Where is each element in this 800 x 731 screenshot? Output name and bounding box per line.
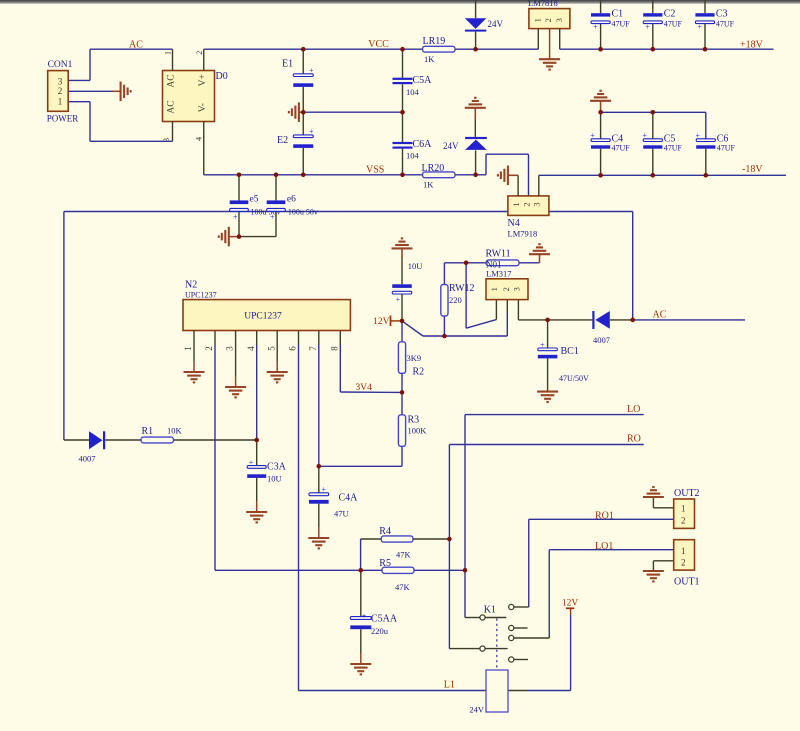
wire e5 e6 bottoms to ground (239, 211, 276, 236)
svg-text:+: + (322, 485, 327, 494)
svg-text:1: 1 (532, 18, 542, 22)
diode 4007 at R1 (79, 431, 106, 463)
wire K1 throw stubs (514, 628, 528, 660)
svg-text:LO1: LO1 (595, 541, 613, 552)
svg-text:C1: C1 (612, 8, 624, 19)
svg-text:CON1: CON1 (48, 60, 73, 70)
svg-text:C5AA: C5AA (371, 613, 398, 624)
diode 4007 on AC line (592, 311, 610, 345)
svg-text:N2: N2 (185, 280, 197, 291)
svg-text:47UF: 47UF (612, 19, 631, 28)
svg-text:2: 2 (204, 346, 214, 351)
junction at 600.6,175.3 (598, 173, 603, 178)
junction at 402.5,49.2 (400, 47, 405, 52)
svg-text:24V: 24V (469, 704, 485, 714)
svg-text:+18V: +18V (740, 40, 764, 51)
ground at E1 E2 midpoint (289, 102, 303, 122)
resistor R5 (379, 558, 414, 592)
wire LO1 net (514, 550, 674, 638)
ic N2 UPC1237 (183, 280, 350, 331)
svg-text:K1: K1 (484, 604, 496, 615)
capacitor E1 (282, 49, 314, 112)
wire relay right to 12V (508, 615, 571, 691)
svg-text:+: + (643, 131, 648, 140)
wire AC output line (518, 319, 745, 321)
svg-text:+: + (590, 131, 595, 140)
wire +18V rail (560, 48, 774, 50)
junction at 360.8,570.3 (359, 568, 364, 573)
regulator N4 LM7918 (508, 196, 549, 239)
svg-text:5: 5 (266, 346, 276, 351)
svg-text:R2: R2 (413, 366, 425, 377)
svg-text:100u 50v: 100u 50v (288, 207, 318, 216)
relay coil L1 (469, 670, 508, 714)
junction at 475.6,49.2 (473, 47, 478, 52)
junction at 449.4,539 (447, 537, 452, 542)
junction at 402,392.4 (400, 390, 405, 395)
wire R3 column (319, 392, 402, 466)
svg-text:BC1: BC1 (561, 346, 579, 357)
connector CON1 (47, 60, 79, 123)
svg-text:LR20: LR20 (422, 163, 445, 174)
capacitor C4 (590, 112, 630, 175)
wire K1 pole arms (485, 618, 508, 649)
resistor R1 (141, 425, 183, 443)
ground right of RW11 (529, 244, 550, 263)
junction at 600.6,49.2 (598, 47, 603, 52)
svg-text:R1: R1 (142, 426, 154, 437)
svg-text:R4: R4 (379, 526, 391, 537)
svg-text:+: + (362, 611, 367, 620)
svg-text:N4: N4 (508, 218, 520, 229)
junction at 466.1,262.8 (464, 261, 469, 266)
resistor LR19 (423, 36, 456, 64)
junction at 705,49.2 (703, 47, 708, 52)
svg-text:AC: AC (167, 100, 177, 113)
LM7818 pin3 lead (559, 29, 561, 50)
bridge pin 3 (161, 122, 173, 143)
svg-text:47UF: 47UF (664, 144, 683, 153)
svg-text:1: 1 (511, 202, 521, 206)
svg-text:220: 220 (449, 295, 462, 305)
junction at 465,570.3 (463, 568, 468, 573)
ground above lower 24V diode (465, 98, 486, 137)
svg-text:+: + (697, 23, 702, 32)
svg-text:R5: R5 (379, 558, 391, 569)
junction at 402.5,112.2 (400, 110, 405, 115)
UPC1237 pin3 to ground (225, 331, 246, 398)
N4 pin3 lead (538, 175, 540, 196)
wire adj row to LM317 pin2 (423, 299, 507, 336)
svg-text:+: + (233, 213, 238, 222)
svg-text:E1: E1 (282, 58, 293, 69)
junction at 303.25,112.2 (301, 110, 306, 115)
ground below C3A (246, 511, 267, 513)
svg-text:47K: 47K (396, 549, 412, 559)
svg-text:LR19: LR19 (423, 36, 446, 47)
svg-text:3: 3 (58, 77, 63, 87)
svg-text:LM7918: LM7918 (508, 229, 538, 239)
capacitor C4A (309, 466, 358, 537)
ground at CON1 pin2 (113, 90, 121, 92)
svg-text:C3: C3 (716, 8, 728, 19)
LM7818 pin2 to ground (539, 29, 560, 70)
svg-text:UPC1237: UPC1237 (185, 291, 217, 300)
capacitor C3 (695, 0, 734, 49)
svg-text:E2: E2 (277, 135, 288, 146)
svg-text:3: 3 (161, 138, 171, 142)
svg-text:47UF: 47UF (664, 19, 683, 28)
ground below OUT1 (643, 570, 664, 582)
wire RW11 row (444, 262, 539, 264)
capacitor 10U (392, 261, 422, 321)
wire R1 row (64, 439, 257, 441)
svg-text:1: 1 (183, 346, 193, 351)
bridge pin 2 (194, 49, 204, 70)
svg-text:10U: 10U (267, 473, 282, 483)
wire pin8 3V4 row (340, 331, 402, 393)
svg-text:-18V: -18V (742, 164, 763, 175)
junction at 402.5,174.8 (400, 173, 405, 178)
regulator N01 LM317 (486, 279, 528, 300)
svg-text:LO: LO (627, 404, 640, 415)
svg-text:1: 1 (162, 51, 172, 55)
capacitor E2 (277, 112, 314, 175)
wire RO net (449, 445, 643, 649)
svg-text:3V4: 3V4 (356, 383, 373, 393)
wire R2 column (401, 321, 403, 393)
K1 contact pole upper (480, 615, 485, 620)
svg-text:47UF: 47UF (612, 144, 631, 153)
svg-text:2: 2 (522, 202, 532, 206)
junction at 652.8,49.2 (651, 47, 656, 52)
svg-text:VCC: VCC (368, 39, 389, 50)
bridge pin 4 (193, 122, 203, 175)
svg-text:AC: AC (129, 40, 143, 51)
wire -18V rail (539, 174, 786, 176)
junction at 402,320.9 (400, 319, 405, 324)
svg-text:RO: RO (627, 434, 641, 445)
svg-text:4007: 4007 (593, 335, 610, 345)
svg-text:LM317: LM317 (486, 269, 512, 279)
svg-text:3: 3 (532, 202, 542, 206)
capacitor C1 (591, 0, 630, 49)
capacitor C2 (643, 0, 682, 49)
svg-text:3: 3 (511, 287, 521, 291)
svg-text:1K: 1K (423, 179, 434, 189)
svg-text:2: 2 (194, 51, 204, 55)
svg-text:e5: e5 (250, 195, 259, 205)
capacitor C6A (393, 112, 433, 175)
wire RO1 net (514, 519, 674, 607)
bridge pin 1 (162, 49, 172, 70)
junction at 256.7,440 (254, 438, 259, 443)
junction at 705.8,175.3 (704, 173, 709, 178)
wire OUT2 pin1 to ground (653, 498, 673, 508)
capacitor C5A (393, 49, 433, 112)
wire E1 E2 midpoint rail (303, 111, 402, 113)
wire long net from AC line to R1 line (64, 212, 633, 441)
junction at 318.8,466.3 (317, 464, 322, 469)
svg-text:e6: e6 (287, 195, 296, 205)
LM7818 pin1 lead (537, 29, 539, 50)
wire OUT1 pin2 to ground (653, 561, 673, 571)
wire LO net (465, 415, 644, 618)
svg-text:12V: 12V (373, 317, 390, 327)
svg-text:8: 8 (329, 346, 339, 351)
capacitor e5 (230, 175, 281, 222)
ground above 10U cap (392, 238, 413, 284)
K1 contact throw RO1 (509, 604, 514, 609)
svg-text:4: 4 (193, 136, 203, 141)
svg-text:2: 2 (681, 515, 686, 525)
svg-text:+: + (309, 66, 314, 75)
resistor R3 (398, 414, 427, 446)
connector OUT1 (674, 540, 700, 588)
capacitor C6 (696, 131, 736, 175)
wire C4 C5 C6 top rail (601, 112, 706, 139)
svg-text:24V: 24V (488, 19, 504, 29)
regulator LM7818 (528, 0, 570, 29)
wire UPC pin4 column (256, 331, 258, 466)
N4 pin1 to ground (498, 166, 518, 196)
potentiometer RW11 (486, 248, 520, 278)
svg-text:104: 104 (406, 87, 420, 97)
svg-text:C4A: C4A (339, 492, 359, 503)
K1 contact throw 2 (509, 625, 514, 630)
svg-text:2: 2 (58, 87, 63, 97)
svg-text:47UF: 47UF (716, 19, 735, 28)
junction at 600.6,112.3 (598, 110, 603, 115)
resistor R4 (379, 526, 413, 559)
svg-text:C3A: C3A (267, 461, 287, 472)
junction at 475.6,174.8 (473, 173, 478, 178)
svg-text:+: + (249, 458, 254, 467)
svg-text:C5A: C5A (413, 75, 433, 86)
svg-text:12V: 12V (562, 598, 579, 608)
svg-text:OUT2: OUT2 (674, 488, 700, 499)
svg-text:+: + (396, 295, 401, 304)
svg-text:3: 3 (554, 18, 564, 22)
capacitor C5AA (350, 570, 398, 663)
ground below C4A (308, 537, 329, 539)
svg-text:47K: 47K (395, 582, 411, 592)
svg-text:POWER: POWER (47, 113, 79, 123)
svg-text:+: + (696, 131, 701, 140)
svg-text:VSS: VSS (366, 164, 384, 175)
svg-text:D0: D0 (216, 71, 228, 82)
svg-text:+: + (645, 23, 650, 32)
svg-text:220u: 220u (371, 626, 389, 636)
junction at 303.25,49.2 (301, 47, 306, 52)
svg-text:47U/50V: 47U/50V (559, 374, 589, 383)
wire VCC rail (204, 48, 539, 50)
capacitor e6 (267, 175, 318, 222)
K1 actuator dotted line (496, 619, 498, 670)
wire AC net from CON1 to bridge pin 1 (68, 49, 172, 80)
capacitor C3A (247, 458, 286, 512)
svg-text:V+: V+ (198, 74, 208, 86)
svg-text:AC: AC (653, 309, 667, 320)
junction at 444.4,336 (442, 334, 447, 339)
svg-text:2: 2 (501, 287, 511, 291)
svg-text:1K: 1K (424, 54, 435, 64)
UPC1237 pin5 to ground (267, 331, 288, 383)
ground above C4 rail (590, 91, 611, 113)
junction at 239,174.8 (237, 173, 242, 178)
ground below BC1 (537, 391, 558, 393)
svg-text:100K: 100K (408, 425, 428, 435)
svg-text:R3: R3 (408, 414, 420, 425)
svg-text:RW11: RW11 (486, 248, 511, 259)
wire CON1 pin2 to ground (68, 90, 112, 92)
wire LM317 pin3 lead (517, 299, 519, 320)
zener diode 24V lower (443, 137, 487, 175)
svg-text:1: 1 (58, 97, 63, 107)
junction at 652.8,175.3 (651, 173, 656, 178)
K1 contact pole lower (480, 646, 485, 651)
svg-text:1: 1 (489, 287, 499, 291)
wire RW12 top lead (443, 263, 445, 285)
zener diode 24V upper (465, 0, 504, 49)
svg-text:104: 104 (406, 151, 420, 161)
resistor R2 (398, 342, 424, 378)
wire UPC pin6 column (299, 331, 487, 691)
K1 contact throw LO1 (509, 635, 514, 640)
svg-text:C2: C2 (664, 8, 676, 19)
svg-text:4: 4 (246, 346, 256, 351)
svg-text:1: 1 (681, 546, 686, 556)
junction at 652.8,112.3 (651, 110, 656, 115)
svg-text:3: 3 (225, 346, 235, 351)
wire VSS rail (204, 154, 529, 196)
svg-text:47UF: 47UF (717, 144, 736, 153)
junction at 547.6,319.9 (545, 318, 550, 323)
ground below C5AA (350, 663, 371, 665)
svg-text:2: 2 (681, 557, 686, 567)
capacitor BC1 (538, 320, 589, 392)
svg-text:V-: V- (198, 103, 208, 112)
junction at 303.25,174.8 (301, 173, 306, 178)
wire UPC pin2 column (215, 331, 465, 571)
junction at 276,174.8 (274, 173, 279, 178)
svg-text:2: 2 (543, 18, 553, 22)
wire LM317 pin1 lead (495, 299, 497, 320)
wire LM317 pin1 diagonal (466, 320, 496, 329)
svg-text:+: + (270, 213, 275, 222)
svg-text:4007: 4007 (79, 453, 96, 463)
svg-text:47U: 47U (334, 509, 349, 519)
svg-text:UPC1237: UPC1237 (244, 312, 282, 322)
potentiometer RW12 (441, 283, 475, 316)
svg-text:24V: 24V (443, 141, 459, 151)
svg-text:10U: 10U (408, 261, 423, 271)
power 12V left (373, 316, 402, 327)
resistor LR20 (422, 163, 456, 190)
svg-text:OUT1: OUT1 (674, 577, 700, 588)
wire R4 row (361, 539, 450, 570)
UPC1237 pin1 to ground (184, 331, 205, 383)
svg-text:+: + (309, 127, 314, 136)
svg-text:RW12: RW12 (449, 283, 475, 294)
svg-text:C6A: C6A (413, 139, 433, 150)
junction at 632.7,319.9 (630, 318, 635, 323)
svg-text:10K: 10K (167, 425, 183, 435)
power 12V right (562, 598, 579, 615)
svg-text:1: 1 (681, 503, 686, 513)
svg-text:7: 7 (308, 346, 318, 351)
ground at e5 e6 (219, 227, 239, 247)
wire UPC pin7 column (318, 331, 320, 467)
connector OUT2 (674, 488, 700, 529)
K1 contact throw 4 (509, 657, 514, 662)
svg-text:6: 6 (288, 346, 298, 351)
wire CON1 pin1 to bridge pin 3 (68, 102, 172, 142)
svg-text:LM7818: LM7818 (528, 0, 558, 8)
ground above OUT2 (643, 487, 664, 499)
wire RW12 bottom lead (443, 316, 445, 336)
svg-text:RO1: RO1 (595, 510, 614, 521)
svg-text:+: + (593, 23, 598, 32)
svg-text:+: + (540, 340, 545, 349)
capacitor C5 (643, 112, 683, 175)
wire vertical from RW11 junction to pin1 diagonal (465, 263, 467, 328)
junction at 239,236.6 (237, 234, 242, 239)
svg-text:AC: AC (167, 74, 177, 87)
wire 12V diagonal (402, 321, 423, 336)
svg-text:3K9: 3K9 (407, 353, 422, 363)
svg-text:L1: L1 (444, 679, 455, 690)
bridge rectifier D0 (163, 71, 228, 122)
